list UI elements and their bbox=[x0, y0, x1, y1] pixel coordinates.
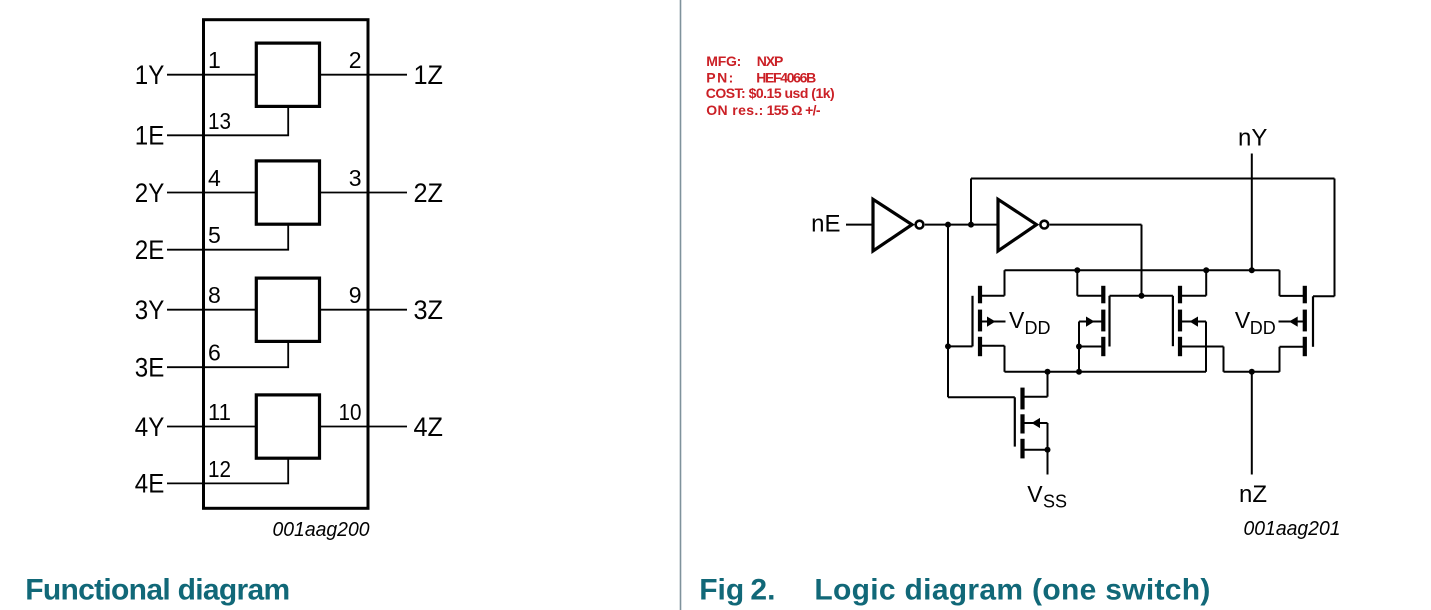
svg-text:V: V bbox=[1027, 481, 1043, 507]
svg-text:4Z: 4Z bbox=[414, 412, 444, 442]
svg-text:HEF4066B: HEF4066B bbox=[756, 70, 816, 86]
svg-text:4E: 4E bbox=[135, 469, 165, 499]
svg-text:Fig: Fig bbox=[699, 574, 744, 607]
svg-text:V: V bbox=[1009, 307, 1025, 333]
svg-text:nE: nE bbox=[811, 210, 840, 237]
svg-text:2: 2 bbox=[349, 47, 362, 73]
svg-text:001aag201: 001aag201 bbox=[1244, 518, 1341, 540]
svg-text:6: 6 bbox=[208, 340, 221, 366]
svg-text:SS: SS bbox=[1043, 492, 1067, 512]
svg-text:001aag200: 001aag200 bbox=[273, 519, 370, 541]
svg-text:2E: 2E bbox=[135, 235, 165, 265]
svg-text:V: V bbox=[1235, 307, 1251, 333]
svg-text:3: 3 bbox=[349, 165, 362, 191]
svg-text:2Y: 2Y bbox=[135, 178, 165, 208]
svg-text:3E: 3E bbox=[135, 353, 165, 383]
svg-text:2Z: 2Z bbox=[414, 178, 444, 208]
svg-text:PN:: PN: bbox=[706, 70, 733, 86]
svg-text:155 Ω +/-: 155 Ω +/- bbox=[767, 102, 821, 118]
svg-text:1Y: 1Y bbox=[135, 60, 165, 90]
svg-text:DD: DD bbox=[1250, 318, 1276, 338]
svg-text:3Y: 3Y bbox=[135, 295, 165, 325]
svg-text:4Y: 4Y bbox=[135, 412, 165, 442]
svg-text:11: 11 bbox=[208, 399, 231, 425]
svg-text:1E: 1E bbox=[135, 121, 165, 151]
svg-text:DD: DD bbox=[1025, 318, 1051, 338]
svg-text:4: 4 bbox=[208, 165, 221, 191]
svg-text:10: 10 bbox=[339, 399, 362, 425]
svg-text:ON res.:: ON res.: bbox=[706, 102, 763, 118]
svg-text:MFG:: MFG: bbox=[706, 53, 741, 69]
svg-text:1Z: 1Z bbox=[414, 60, 444, 90]
svg-text:13: 13 bbox=[208, 108, 231, 134]
svg-text:5: 5 bbox=[208, 222, 221, 248]
svg-text:Functional diagram: Functional diagram bbox=[25, 574, 290, 607]
svg-text:8: 8 bbox=[208, 282, 221, 308]
svg-text:12: 12 bbox=[208, 456, 231, 482]
svg-text:3Z: 3Z bbox=[414, 295, 444, 325]
svg-text:COST: $0.15 usd (1k): COST: $0.15 usd (1k) bbox=[706, 85, 835, 101]
svg-text:2.: 2. bbox=[750, 574, 775, 607]
svg-text:NXP: NXP bbox=[757, 53, 784, 69]
svg-text:1: 1 bbox=[208, 47, 221, 73]
svg-text:nZ: nZ bbox=[1239, 481, 1267, 508]
svg-text:9: 9 bbox=[349, 282, 362, 308]
svg-text:Logic diagram (one switch): Logic diagram (one switch) bbox=[814, 574, 1210, 607]
svg-text:nY: nY bbox=[1238, 125, 1267, 152]
